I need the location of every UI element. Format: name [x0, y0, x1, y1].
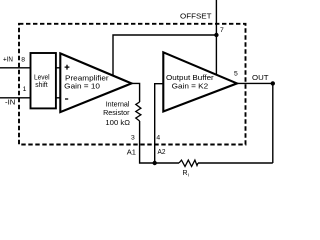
svg-text:I: I: [188, 173, 189, 178]
svg-text:Output Buffer: Output Buffer: [166, 73, 214, 82]
svg-text:3: 3: [131, 134, 135, 141]
svg-text:Gain = K2: Gain = K2: [172, 82, 209, 91]
svg-text:Internal: Internal: [106, 99, 130, 108]
svg-text:A2: A2: [158, 147, 166, 156]
svg-text:100 kΩ: 100 kΩ: [105, 118, 130, 127]
svg-text:8: 8: [21, 57, 25, 64]
svg-text:1: 1: [23, 86, 27, 93]
svg-text:5: 5: [234, 71, 238, 78]
svg-text:7: 7: [220, 27, 224, 34]
svg-text:-IN: -IN: [5, 98, 15, 107]
svg-text:OUT: OUT: [252, 73, 269, 82]
svg-text:4: 4: [156, 134, 160, 141]
svg-text:A1: A1: [127, 148, 136, 157]
svg-text:OFFSET: OFFSET: [180, 12, 212, 21]
svg-text:+IN: +IN: [3, 54, 13, 63]
svg-text:Gain = 10: Gain = 10: [64, 82, 100, 91]
svg-text:shift: shift: [35, 80, 48, 89]
svg-text:Resistor: Resistor: [103, 108, 130, 117]
